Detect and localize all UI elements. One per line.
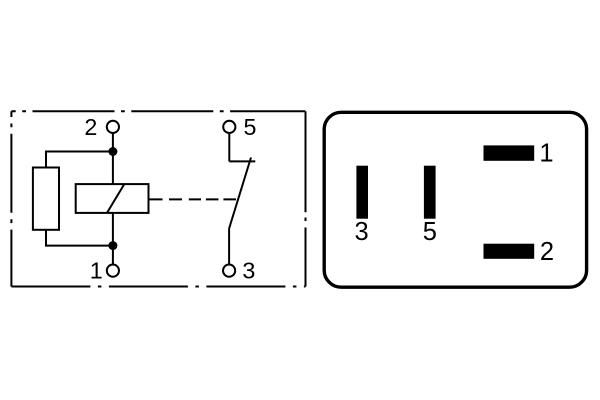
svg-text:1: 1	[90, 257, 103, 283]
svg-text:5: 5	[423, 218, 437, 246]
svg-text:5: 5	[244, 114, 257, 140]
svg-text:1: 1	[539, 140, 553, 168]
svg-text:2: 2	[540, 238, 554, 266]
svg-text:2: 2	[84, 114, 97, 140]
svg-text:3: 3	[355, 218, 369, 246]
svg-text:3: 3	[242, 257, 255, 283]
